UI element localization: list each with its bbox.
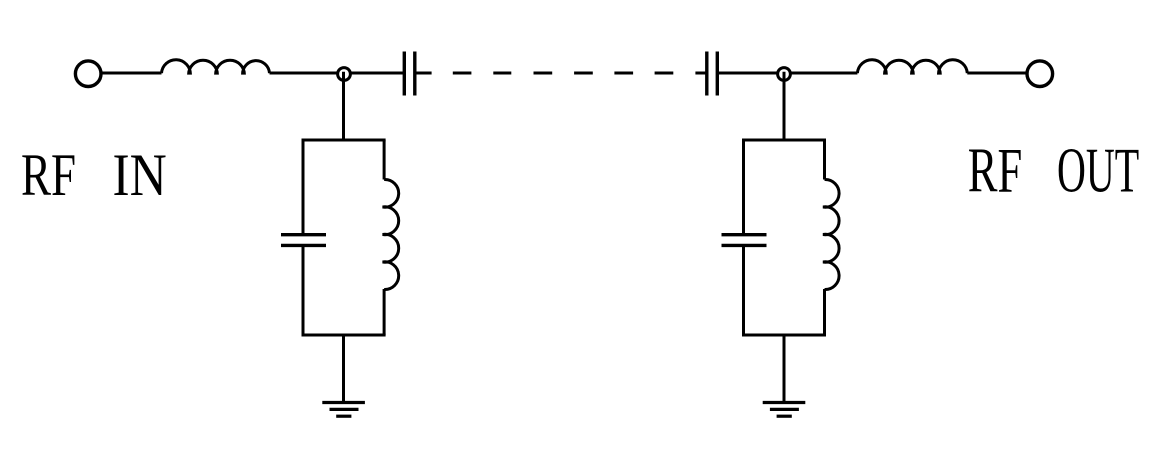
shunt tank 2: bottom bar bbox=[742, 334, 826, 337]
wire from RF IN port to inductor L1 bbox=[102, 72, 162, 75]
wire from tank 2 to ground bbox=[783, 335, 786, 402]
shunt tank 1: top bar bbox=[302, 139, 386, 142]
capacitor C3 (shunt) plates bbox=[281, 233, 326, 236]
shunt tank 1: right branch upper wire bbox=[383, 140, 386, 180]
shunt tank 1: bottom bar bbox=[302, 334, 386, 337]
shunt tank 2: left branch upper wire bbox=[742, 140, 745, 234]
shunt tank 1: left branch upper wire bbox=[302, 140, 305, 234]
inductor L4 (shunt, vertical, 4 humps) bbox=[823, 179, 839, 289]
wire stub right of C1 bbox=[416, 72, 432, 75]
shunt tank 1: left branch lower wire bbox=[302, 246, 305, 335]
inductor L2 (series, horizontal, 4 humps) bbox=[857, 60, 967, 75]
shunt tank 1: right branch lower wire bbox=[383, 289, 386, 335]
wire from L2 to RF OUT port bbox=[967, 72, 1026, 75]
svg-text:RF: RF bbox=[21, 142, 76, 208]
node 1 junction circle bbox=[338, 68, 351, 81]
shunt tank 2: left branch lower wire bbox=[742, 246, 745, 335]
capacitor C1 (series) plates bbox=[403, 52, 406, 96]
svg-text:OUT: OUT bbox=[1057, 135, 1139, 205]
wire from L1 to node 1 bbox=[270, 72, 338, 75]
inductor L1 (series, horizontal, 4 humps) bbox=[162, 60, 270, 75]
wire from node 1 down to shunt tank 1 bbox=[342, 72, 345, 142]
wire from node 1 to capacitor C1 bbox=[351, 72, 403, 75]
capacitor C4 (shunt) plates bbox=[722, 233, 767, 236]
capacitor C2 (series) plates bbox=[705, 52, 708, 96]
wire from tank 1 to ground bbox=[342, 335, 345, 402]
ground symbol 2 bbox=[763, 401, 806, 404]
wire from node 2 to inductor L2 bbox=[791, 72, 857, 75]
svg-text:IN: IN bbox=[113, 142, 167, 208]
ground symbol 1 bbox=[322, 401, 365, 404]
svg-text:RF: RF bbox=[968, 135, 1023, 205]
wire stub left of C2 bbox=[695, 72, 707, 75]
terminal RF OUT port circle bbox=[1027, 61, 1053, 87]
shunt tank 2: right branch upper wire bbox=[823, 140, 826, 180]
wire from C2 to node 2 bbox=[719, 72, 778, 75]
dashed wire (omitted repeated sections) bbox=[453, 72, 674, 75]
wire from node 2 down to shunt tank 2 bbox=[783, 72, 786, 142]
node 2 junction circle bbox=[778, 68, 791, 81]
shunt tank 2: right branch lower wire bbox=[823, 289, 826, 335]
terminal RF IN port circle bbox=[75, 61, 101, 87]
inductor L3 (shunt, vertical, 4 humps) bbox=[383, 179, 399, 289]
shunt tank 2: top bar bbox=[742, 139, 826, 142]
